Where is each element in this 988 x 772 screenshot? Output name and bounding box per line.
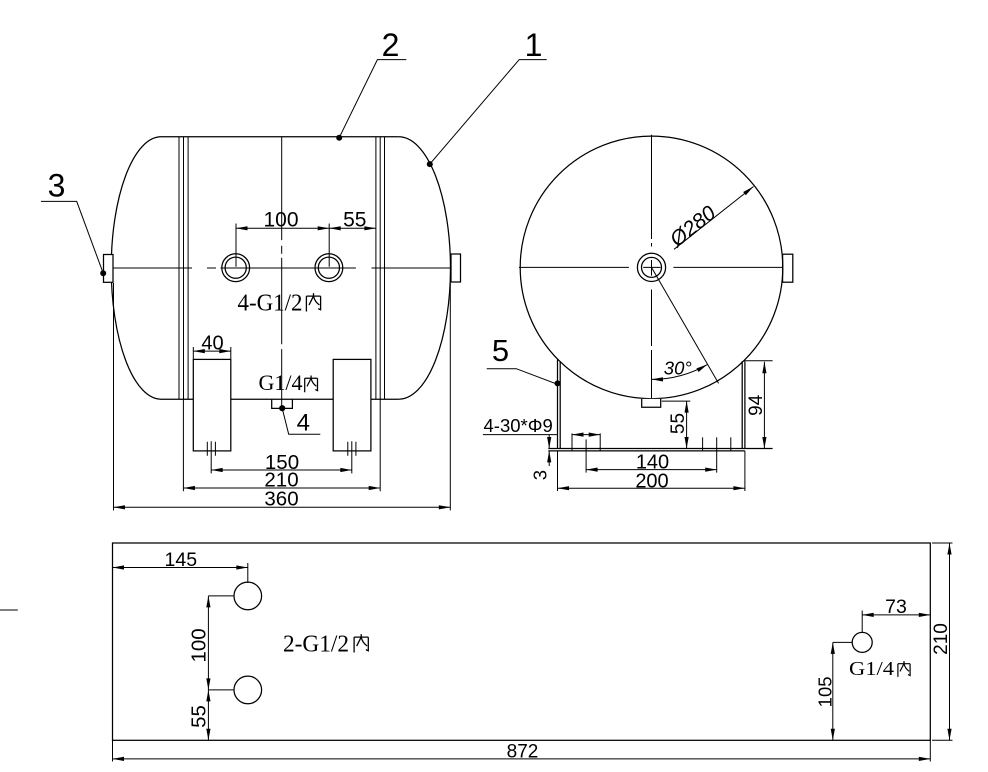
dim 40 line xyxy=(193,350,231,352)
dim 73 extension xyxy=(861,611,863,634)
dim 73 line xyxy=(862,614,930,616)
30 deg radial line xyxy=(652,267,719,383)
dim 872 line xyxy=(113,758,931,760)
dim 200 extensions xyxy=(558,451,745,491)
dim 55 line xyxy=(686,401,688,448)
shell development plate xyxy=(113,543,931,740)
callout 2 dot xyxy=(336,135,342,141)
svg-text:1: 1 xyxy=(525,27,543,63)
label nei glyph 2 xyxy=(305,376,318,393)
left dished head xyxy=(111,137,161,399)
svg-text:30°: 30° xyxy=(664,358,692,379)
port hole right (G1/4) xyxy=(852,632,872,652)
dim 200 line xyxy=(558,487,745,489)
right leg bolt ticks xyxy=(348,442,356,456)
drain stub G1/4 xyxy=(272,399,293,408)
svg-text:200: 200 xyxy=(635,470,668,492)
bolt hole lines left pair xyxy=(572,433,600,451)
callout 5 dot xyxy=(555,380,561,386)
callout 4 dot xyxy=(279,405,285,411)
callout 3 leader xyxy=(41,201,103,273)
svg-text:2: 2 xyxy=(382,27,400,63)
stub to right hole xyxy=(833,641,852,643)
horizontal centerline xyxy=(519,266,783,268)
dim 150 line xyxy=(211,469,352,471)
dim D280 leader xyxy=(674,187,754,250)
svg-text:G1/4: G1/4 xyxy=(849,658,894,680)
svg-text:G1/4: G1/4 xyxy=(259,370,303,395)
right weld seam lines xyxy=(376,137,385,399)
left weld seam lines xyxy=(179,137,188,399)
label nei glyph 4 xyxy=(898,661,910,677)
svg-text:4-G1/2: 4-G1/2 xyxy=(238,291,303,317)
bolt hole lines right pair xyxy=(703,437,731,451)
dim 100 line xyxy=(236,227,329,229)
callout 3 dot xyxy=(100,270,106,276)
stub lines to holes xyxy=(208,596,234,690)
svg-text:2-G1/2: 2-G1/2 xyxy=(283,632,349,658)
tank shell bottom edge segments xyxy=(161,398,399,400)
svg-text:55: 55 xyxy=(668,413,689,434)
svg-text:100: 100 xyxy=(263,209,298,232)
dim 145 line xyxy=(113,567,248,569)
svg-text:73: 73 xyxy=(885,596,907,618)
dim 145 extension xyxy=(247,563,249,583)
dim 872 extensions xyxy=(113,740,931,761)
label nei glyph 1 xyxy=(306,293,320,311)
svg-text:4-30*Φ9: 4-30*Φ9 xyxy=(484,415,553,436)
center hole inner xyxy=(642,257,662,277)
vertical centerline xyxy=(651,135,653,399)
tank end circle xyxy=(520,136,783,399)
bracket right side plates xyxy=(742,360,745,449)
svg-text:100: 100 xyxy=(187,628,210,662)
svg-text:55: 55 xyxy=(343,209,366,232)
svg-text:5: 5 xyxy=(492,333,509,368)
svg-text:145: 145 xyxy=(165,549,198,571)
callout 1 leader xyxy=(430,60,547,165)
horizontal centerline xyxy=(113,267,451,269)
port circle right (G1/2) xyxy=(315,254,343,282)
dim 140 line xyxy=(586,469,717,471)
dim 210 extension bottom xyxy=(932,739,953,741)
vertical centerline xyxy=(281,137,283,409)
dim 210 line xyxy=(183,487,380,489)
dim 40 extensions xyxy=(193,347,231,359)
dim 94 line xyxy=(763,362,765,449)
port circle left (G1/2) xyxy=(222,254,250,282)
dim 210 extensions xyxy=(183,399,380,491)
dim 55 extension xyxy=(662,400,691,402)
right dished head xyxy=(399,137,451,399)
dim 360 line xyxy=(114,506,451,508)
dim 210 extension top xyxy=(932,542,953,544)
dim 140 extensions xyxy=(586,437,717,472)
dim 105 line xyxy=(832,642,834,740)
dim 150 extensions xyxy=(211,441,352,473)
svg-text:4: 4 xyxy=(297,410,310,437)
svg-text:3: 3 xyxy=(48,168,66,204)
center hole outer xyxy=(637,253,665,281)
dim 3 arrows xyxy=(548,435,550,449)
callout 2 leader xyxy=(339,60,406,138)
label underline xyxy=(483,434,557,436)
left leg plate xyxy=(193,359,231,451)
callout 5 leader xyxy=(487,369,558,385)
left nozzle 3 xyxy=(104,255,114,283)
bracket left side plates xyxy=(558,360,561,449)
svg-text:210: 210 xyxy=(931,623,952,655)
svg-text:105: 105 xyxy=(814,676,835,707)
bottom drain stub xyxy=(642,399,661,407)
label nei glyph 3 xyxy=(354,634,368,652)
30 deg arc xyxy=(652,364,708,379)
mini dim 30 xyxy=(572,434,600,436)
svg-text:94: 94 xyxy=(746,394,767,416)
dim 100 extension lines xyxy=(236,224,329,267)
svg-text:Ø280: Ø280 xyxy=(665,201,721,252)
left leg bolt ticks xyxy=(207,442,215,456)
tank shell top edge xyxy=(161,136,399,138)
dim 94 extension top xyxy=(746,360,773,362)
dim 210 line xyxy=(949,543,951,740)
callout 1 dot xyxy=(427,161,433,167)
svg-text:872: 872 xyxy=(507,742,539,763)
svg-text:55: 55 xyxy=(187,705,210,728)
svg-text:40: 40 xyxy=(201,332,223,354)
right nozzle (end view) xyxy=(783,254,793,282)
callout 4 leader xyxy=(282,408,320,434)
dim 100 line xyxy=(207,596,209,690)
port hole top (G1/2) xyxy=(234,582,262,610)
stray tick left margin xyxy=(0,609,18,611)
svg-text:360: 360 xyxy=(264,487,298,510)
port hole bottom (G1/2) xyxy=(234,676,262,704)
right nozzle xyxy=(451,254,461,282)
right leg plate xyxy=(333,359,371,451)
svg-text:3: 3 xyxy=(530,470,551,480)
dim 55 line xyxy=(329,227,376,229)
dim 360 extensions xyxy=(114,283,451,510)
bracket bottom plate xyxy=(548,449,772,451)
dim 55 line xyxy=(207,690,209,740)
dim 3 arrow up xyxy=(548,451,550,466)
